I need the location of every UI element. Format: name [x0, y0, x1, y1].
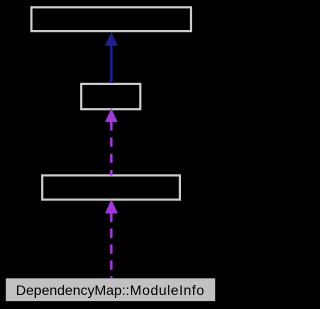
svg-text:DependencyMap::ModuleInfo: DependencyMap::ModuleInfo	[16, 282, 205, 298]
